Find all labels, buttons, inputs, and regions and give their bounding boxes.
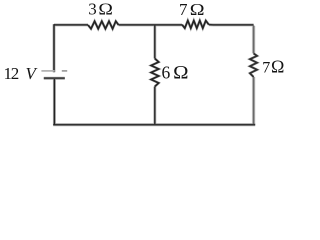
- battery V1 bottom plate (short thick): [44, 77, 65, 79]
- battery V1 top plate (long thin, light): [41, 70, 54, 72]
- svg-text:Ω: Ω: [173, 63, 188, 84]
- resistor R4 7-ohm zigzag (right branch): [250, 53, 257, 77]
- svg-text:7: 7: [179, 0, 188, 19]
- wire right branch upper: [253, 26, 255, 54]
- battery V1 top plate right dash: [62, 70, 67, 72]
- wire bottom rail: [53, 124, 255, 126]
- svg-text:Ω: Ω: [98, 0, 113, 18]
- soft-edge underlay halos for all wires (scan blur emulation): [44, 21, 257, 125]
- svg-text:6: 6: [162, 63, 171, 83]
- wire top rail left segment: [54, 24, 88, 26]
- resistor R1 3-ohm zigzag: [88, 21, 119, 29]
- svg-text:3: 3: [88, 0, 97, 19]
- wire right branch lower: [253, 77, 255, 125]
- svg-text:7: 7: [262, 60, 270, 77]
- wire left branch lower: [53, 79, 55, 125]
- wire top rail right segment: [209, 24, 254, 26]
- wire middle branch upper: [154, 25, 156, 59]
- wire left branch upper: [53, 24, 55, 72]
- wire top rail middle segment: [119, 24, 182, 26]
- svg-text:12V: 12V: [4, 64, 39, 83]
- resistor R2 7-ohm zigzag (top): [182, 21, 209, 29]
- resistor R3 6-ohm zigzag (middle branch): [151, 59, 159, 87]
- svg-text:Ω: Ω: [190, 1, 205, 19]
- svg-text:Ω: Ω: [271, 57, 284, 77]
- wire middle branch lower: [154, 87, 156, 126]
